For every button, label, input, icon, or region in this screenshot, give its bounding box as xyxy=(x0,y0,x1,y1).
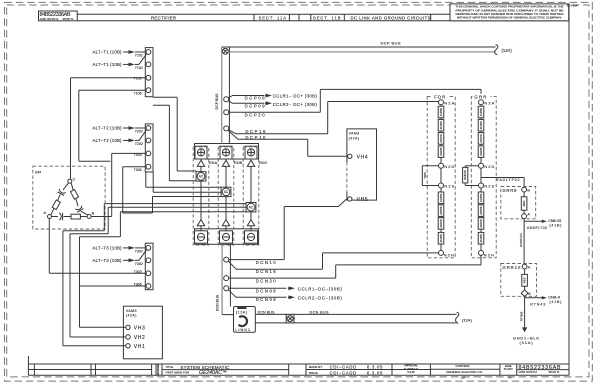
svg-text:21R5K: 21R5K xyxy=(479,134,483,143)
AC terminal RDB xyxy=(221,187,231,196)
svg-text:6.3.05: 6.3.05 xyxy=(367,371,383,376)
resistor FDR R2 xyxy=(438,119,444,131)
svg-text:(41B): (41B) xyxy=(549,299,562,304)
rectifier DC+ bus bar xyxy=(195,144,259,160)
terminal VH5 xyxy=(348,197,352,201)
AC terminal RDC xyxy=(246,203,256,212)
wire T206 to RDB lower xyxy=(123,166,147,168)
resistor GRR R6 xyxy=(478,205,484,217)
svg-text:(12A): (12A) xyxy=(236,311,247,315)
svg-text:REPRODUCED IN ANY MANNER N: REPRODUCED IN ANY MANNER NOR DISCLOSED T… xyxy=(456,12,564,16)
resistor GRR R5 xyxy=(478,192,484,204)
svg-text:21R5K: 21R5K xyxy=(439,219,443,228)
svg-text:73R5: 73R5 xyxy=(423,172,427,179)
svg-text:RES: RES xyxy=(522,200,526,206)
wire DCN16 to FDR N2H xyxy=(228,261,236,269)
proprietary notice box xyxy=(450,4,569,21)
terminal VH1 xyxy=(126,344,130,348)
wire DCN08 xyxy=(229,287,287,289)
relay contact GRR10 dashed box xyxy=(501,264,537,297)
svg-text:21R5K: 21R5K xyxy=(439,193,443,202)
resistor GRR R2 xyxy=(478,119,484,131)
svg-text:DCN08: DCN08 xyxy=(256,288,277,293)
DCN terminal DCN10/16 xyxy=(224,257,229,262)
svg-text:6.3.05: 6.3.05 xyxy=(407,370,415,374)
svg-text:21R5K: 21R5K xyxy=(439,134,443,143)
arrow ALT-T2 no.1 xyxy=(123,127,131,129)
wire GNDFL01 xyxy=(523,221,525,264)
svg-text:(42A): (42A) xyxy=(126,314,136,318)
svg-text:GNDFLT02: GNDFLT02 xyxy=(527,226,547,230)
resistor GRR R3 xyxy=(478,133,484,145)
svg-text:FP: FP xyxy=(35,170,41,175)
svg-text:21R5K: 21R5K xyxy=(439,121,443,130)
svg-text:MADE BY: MADE BY xyxy=(309,365,323,369)
node N2A GRR xyxy=(479,100,484,105)
DCN bus crossing symbol xyxy=(286,314,294,323)
svg-text:N2H: N2H xyxy=(484,252,494,257)
wire DCN10 to VH5 xyxy=(229,259,285,261)
title block xyxy=(152,363,569,365)
resistor GRR R1 xyxy=(478,106,484,118)
svg-text:RTN42: RTN42 xyxy=(520,311,524,321)
svg-text:6.3.05: 6.3.05 xyxy=(367,365,383,370)
svg-text:T201: T201 xyxy=(135,130,143,134)
svg-text:PLANT: PLANT xyxy=(504,367,513,371)
bypass element FAULF02 GRR xyxy=(465,165,478,167)
wire ALT-T2 leads xyxy=(135,127,146,129)
svg-text:VH5: VH5 xyxy=(357,197,368,203)
wire T2 phase lead 2 to RDB AC xyxy=(152,172,154,192)
svg-text:GNDFL01: GNDFL01 xyxy=(519,233,523,247)
rectifier leg RDB dashed box xyxy=(218,147,234,245)
svg-text:PC: PC xyxy=(508,376,512,380)
svg-text:DCN10: DCN10 xyxy=(256,260,277,265)
svg-text:SECT. 11B: SECT. 11B xyxy=(313,15,341,20)
resistor FDR R1 xyxy=(438,106,444,118)
wire DCP10 to VH4 xyxy=(228,131,238,140)
svg-text:DCP10: DCP10 xyxy=(245,135,266,140)
svg-text:T206: T206 xyxy=(134,168,142,172)
DCP terminal DCP16/10 xyxy=(224,126,229,131)
svg-text:DC LINK AND GROUND CIRCUITS: DC LINK AND GROUND CIRCUITS xyxy=(351,15,431,20)
svg-text:CBI: CBI xyxy=(461,376,466,380)
svg-text:DCP16: DCP16 xyxy=(245,129,266,134)
diode lower RDB xyxy=(222,220,229,226)
svg-text:LINK1: LINK1 xyxy=(235,327,250,332)
svg-text:GRR: GRR xyxy=(474,95,486,100)
wire VH2 to RDC AC xyxy=(70,336,126,338)
diode upper RDA xyxy=(197,160,204,166)
winding element bottom side xyxy=(71,214,80,219)
svg-text:21R5K: 21R5K xyxy=(439,147,443,156)
svg-text:N2D: N2D xyxy=(444,164,454,169)
node N2A FDR xyxy=(439,100,444,105)
svg-text:REVISIONS: REVISIONS xyxy=(156,364,160,376)
svg-text:DCP08: DCP08 xyxy=(245,96,266,101)
diode upper RDC xyxy=(247,160,254,166)
ground arrow xyxy=(522,327,527,332)
svg-text:ISSUE: ISSUE xyxy=(309,371,318,375)
svg-text:21R5K: 21R5K xyxy=(479,147,483,156)
voltage module VAM3 right box xyxy=(347,129,377,200)
svg-text:21R5K: 21R5K xyxy=(479,219,483,228)
svg-text:DCN09: DCN09 xyxy=(256,297,277,302)
svg-text:T301: T301 xyxy=(135,250,143,254)
AC terminal RDA xyxy=(196,172,206,181)
svg-text:DCN20: DCN20 xyxy=(256,278,277,283)
svg-text:VAM3: VAM3 xyxy=(126,309,137,313)
svg-text:CONTROL: CONTROL xyxy=(456,364,471,368)
svg-text:FAULF02: FAULF02 xyxy=(464,170,467,180)
svg-text:ALT−T2 (10B): ALT−T2 (10B) xyxy=(93,138,123,143)
svg-text:VH4: VH4 xyxy=(357,154,368,160)
arrow CCLR2-DC-(30B) xyxy=(288,296,291,298)
resistor chain GRR dashed box xyxy=(471,97,496,258)
arrow CCLR1-DC-(30B) xyxy=(288,287,291,289)
DCN terminal DCN08/09 xyxy=(224,286,229,291)
node N2D FDR xyxy=(439,163,444,168)
svg-text:84B522336AB: 84B522336AB xyxy=(519,365,561,371)
svg-text:N2D: N2D xyxy=(484,164,494,169)
relay contact GRR9 dashed box xyxy=(501,187,536,219)
svg-text:VH3: VH3 xyxy=(134,325,145,331)
arrow ALT-T2 no.2 xyxy=(123,139,131,141)
svg-text:THIS DRAWING, WHICH CONTAIN: THIS DRAWING, WHICH CONTAINS PROPRIETARY… xyxy=(456,5,564,9)
svg-text:DCP20: DCP20 xyxy=(245,113,266,118)
svg-text:VH1: VH1 xyxy=(134,344,145,350)
rectifier leg RDA dashed box xyxy=(193,147,209,245)
svg-text:CDI−CADD: CDI−CADD xyxy=(330,365,357,370)
svg-text:RES: RES xyxy=(523,277,527,283)
delta node C xyxy=(68,179,72,183)
arrow ALT-T1 no.1 xyxy=(123,51,131,53)
svg-text:RECTIFIER: RECTIFIER xyxy=(151,15,176,20)
DCN terminal DCN20 xyxy=(224,276,229,281)
svg-text:21R5K: 21R5K xyxy=(479,193,483,202)
delta node B xyxy=(87,215,91,219)
wire DCN20 to GRR N2H xyxy=(229,277,336,279)
wire T103 to delta node C xyxy=(71,77,147,79)
svg-text:RDA: RDA xyxy=(209,160,218,165)
svg-text:RDB: RDB xyxy=(234,160,243,165)
svg-text:AC: AC xyxy=(224,190,229,194)
delta winding side A-B xyxy=(52,216,58,218)
capacitor symbol left side xyxy=(58,189,66,196)
svg-text:PROPERTY OF GENERAL ELECTRI: PROPERTY OF GENERAL ELECTRIC COMPANY. IT… xyxy=(456,8,564,12)
svg-text:N2H: N2H xyxy=(444,252,454,257)
svg-text:GRR10: GRR10 xyxy=(502,265,521,270)
svg-text:CCLR1− DC+ (30B): CCLR1− DC+ (30B) xyxy=(273,94,318,99)
svg-text:ALT−T1 (10B): ALT−T1 (10B) xyxy=(93,62,123,67)
svg-text:CDI−CADD: CDI−CADD xyxy=(330,371,357,376)
node N2E GRR xyxy=(479,183,484,188)
svg-text:T302: T302 xyxy=(135,262,143,266)
svg-text:CONT ON SH 12: CONT ON SH 12 xyxy=(519,371,538,374)
svg-text:21R5K: 21R5K xyxy=(439,206,443,215)
wire T106 xyxy=(79,89,147,91)
svg-text:FAULTF02: FAULTF02 xyxy=(497,178,520,182)
resistor GRR R4 xyxy=(478,146,484,158)
svg-text:(41B): (41B) xyxy=(549,223,562,228)
svg-text:N2A: N2A xyxy=(444,100,454,105)
svg-text:(12A): (12A) xyxy=(502,48,513,53)
svg-text:T101: T101 xyxy=(135,54,143,58)
svg-text:T106: T106 xyxy=(134,91,142,95)
svg-text:TITLE: TITLE xyxy=(165,365,173,369)
svg-text:21R5K: 21R5K xyxy=(439,108,443,117)
arrow ALT-T3 no.1 xyxy=(123,247,131,249)
arrow ALT-T3 no.2 xyxy=(123,259,131,261)
arrow ALT-T1 no.2 xyxy=(123,63,131,65)
resistor GRR10 xyxy=(524,269,526,275)
resistor GRR9 xyxy=(523,192,525,197)
wire T303 to delta node A xyxy=(49,272,146,274)
wire DCP16 to FDR N2A xyxy=(228,130,236,134)
rectifier leg RDC dashed box xyxy=(243,147,259,245)
wire T203 to delta node B xyxy=(112,152,147,154)
terminal VH2 xyxy=(126,335,130,339)
wire ALT-T1 leads xyxy=(135,51,146,53)
node N2D GRR xyxy=(479,163,484,168)
link LINK1 xyxy=(234,307,256,333)
node N2H GRR xyxy=(479,250,484,255)
wire DCN bus into LINK1 xyxy=(222,314,233,316)
svg-text:(42A): (42A) xyxy=(349,136,360,140)
svg-text:(31A): (31A) xyxy=(520,340,534,345)
wire ALT-T3 leads xyxy=(135,247,146,249)
svg-text:E2-7354: E2-7354 xyxy=(567,3,578,7)
svg-text:DCN BUS: DCN BUS xyxy=(215,294,219,311)
rectifier leg RDA wire xyxy=(200,159,202,231)
wire T1 phase lead 2 to RDA xyxy=(153,104,170,106)
svg-text:DCN16: DCN16 xyxy=(256,269,277,274)
wire VH1 to RDC upper xyxy=(63,345,126,347)
capacitor symbol bottom side xyxy=(59,213,63,220)
DCN bus break symbol xyxy=(456,312,459,323)
rectifier leg RDC wire xyxy=(250,159,252,231)
GRR chain wire xyxy=(480,102,482,253)
wire T306 to VH3 xyxy=(80,285,147,287)
resistor GRR R7 xyxy=(478,218,484,230)
winding element left side xyxy=(52,200,60,210)
svg-text:GE240AC™: GE240AC™ xyxy=(199,370,227,376)
svg-text:SYSTEM SCHEMATIC: SYSTEM SCHEMATIC xyxy=(180,365,230,370)
svg-text:GENERAL ELECTRIC CO.: GENERAL ELECTRIC CO. xyxy=(446,370,483,374)
rectifier DC- bus bar xyxy=(195,229,259,245)
DCN bus vertical bars xyxy=(221,244,223,314)
svg-text:WITHOUT WRITTEN PERMISSION: WITHOUT WRITTEN PERMISSION OF GENERAL EL… xyxy=(457,16,562,20)
svg-text:CCLR2−DC−(30B): CCLR2−DC−(30B) xyxy=(298,295,343,300)
terminal VH3 xyxy=(126,325,130,329)
GRR9 terminal A xyxy=(522,214,527,219)
svg-text:21R5K: 21R5K xyxy=(479,206,483,215)
svg-text:SH NO T1: SH NO T1 xyxy=(63,18,75,21)
wire VH3 to RDC lower xyxy=(80,326,126,328)
resistor FDR R7 xyxy=(438,218,444,230)
svg-text:RDC: RDC xyxy=(259,160,268,165)
wire delta A to T303 xyxy=(48,219,50,274)
svg-text:FDR: FDR xyxy=(434,95,445,100)
svg-text:B: B xyxy=(92,211,95,215)
arrow to CN8-9 xyxy=(524,296,526,298)
capacitor symbol right side xyxy=(75,205,83,212)
svg-text:DCP BUS: DCP BUS xyxy=(215,93,219,110)
svg-text:CCLR2− DC+ (30B): CCLR2− DC+ (30B) xyxy=(273,102,318,107)
svg-text:CONT ON SH 12: CONT ON SH 12 xyxy=(40,18,59,21)
sheet right frame line xyxy=(568,4,570,375)
svg-text:AC: AC xyxy=(249,206,254,210)
resistor FDR R5 xyxy=(438,192,444,204)
wire DCP20 to GRR N2A xyxy=(229,111,321,113)
resistor chain FDR dashed box xyxy=(427,97,455,258)
svg-text:ALT−T1 (10B): ALT−T1 (10B) xyxy=(93,50,123,55)
resistor FDR R8 xyxy=(438,232,444,244)
wire T2 phase lead 1 to RDB upper xyxy=(145,172,147,187)
diode upper RDB xyxy=(222,160,229,166)
wire DCP09 xyxy=(228,101,232,104)
svg-text:21R5K: 21R5K xyxy=(479,121,483,130)
svg-text:N2A: N2A xyxy=(484,100,494,105)
wire GRR N2E to GRR9 xyxy=(480,178,482,184)
svg-text:DCN BUS: DCN BUS xyxy=(258,310,276,314)
FDR chain wire xyxy=(440,102,442,253)
header strip xyxy=(77,13,569,15)
wire RTN42 xyxy=(524,298,526,328)
svg-text:SECT. 11A: SECT. 11A xyxy=(259,15,287,20)
winding element right side xyxy=(70,190,78,200)
svg-text:GRR9: GRR9 xyxy=(502,188,517,193)
svg-text:T102: T102 xyxy=(135,66,143,70)
delta node A xyxy=(48,215,52,219)
svg-text:N2E: N2E xyxy=(484,184,494,189)
resistor FDR R3 xyxy=(438,133,444,145)
svg-text:N2E: N2E xyxy=(444,184,454,189)
svg-text:DCP BUS: DCP BUS xyxy=(381,41,401,46)
svg-text:ALT−T3 (10B): ALT−T3 (10B) xyxy=(93,246,123,251)
terminal VH4 xyxy=(348,154,352,158)
svg-text:VH2: VH2 xyxy=(134,335,145,341)
wire DCN09 xyxy=(228,290,236,298)
DCP bus horizontal xyxy=(222,46,496,48)
DCP bus crossing symbol xyxy=(223,48,229,54)
node N2E FDR xyxy=(439,183,444,188)
terminal strip T3 xyxy=(145,243,153,290)
bypass resistor 73R5 FDR xyxy=(422,165,438,167)
drawing number box 84B522336AB xyxy=(39,11,78,21)
terminal strip T1 xyxy=(145,48,153,97)
svg-text:(12A): (12A) xyxy=(462,317,472,322)
DCN bus horizontal xyxy=(255,313,456,315)
svg-text:VAM3: VAM3 xyxy=(349,132,360,136)
wire GRR9 A junction xyxy=(523,219,525,222)
GRR10 terminal B xyxy=(521,290,528,297)
svg-text:CCLR1−DC−(30B): CCLR1−DC−(30B) xyxy=(298,286,343,291)
terminal strip T2 xyxy=(145,124,153,172)
svg-text:RTN43: RTN43 xyxy=(530,302,545,306)
arrow CCLR2- DC+ (30B) xyxy=(265,102,268,104)
wire T1 phase lead 1 to RDA xyxy=(153,96,177,98)
alternator winding box FIP xyxy=(33,166,105,229)
resistor FDR R4 xyxy=(438,146,444,158)
delta winding side C-A xyxy=(63,183,68,190)
resistor FDR R6 xyxy=(438,205,444,217)
svg-text:C: C xyxy=(73,178,76,182)
svg-text:21R5K: 21R5K xyxy=(479,234,483,243)
node N2H FDR xyxy=(439,250,444,255)
svg-text:DCP09: DCP09 xyxy=(245,104,266,109)
svg-text:ALT−T2 (10B): ALT−T2 (10B) xyxy=(93,126,123,131)
DCP bus vertical bars xyxy=(221,47,223,144)
rectifier leg RDB wire xyxy=(225,159,227,231)
svg-text:FIRST MADE FOR: FIRST MADE FOR xyxy=(165,371,189,375)
GRR10 terminal A xyxy=(522,264,527,269)
DCP bus break symbol xyxy=(495,45,498,55)
svg-text:21R5K: 21R5K xyxy=(479,108,483,117)
GRR9 terminal B xyxy=(522,187,527,192)
delta winding side C-B xyxy=(71,183,78,206)
voltage module VAM3 left box xyxy=(123,306,162,359)
DCP terminal DCP20 xyxy=(224,110,229,115)
svg-text:AC: AC xyxy=(199,175,204,179)
svg-text:DCN BUS: DCN BUS xyxy=(310,310,330,314)
arrow CCLR1- DC+ (30B) xyxy=(265,95,268,97)
svg-text:21R5K: 21R5K xyxy=(439,234,443,243)
svg-text:T202: T202 xyxy=(135,142,143,146)
arrow to CN8-23 xyxy=(524,220,542,222)
wire DCP08 xyxy=(228,96,232,98)
svg-text:SH NO T1: SH NO T1 xyxy=(549,371,561,374)
diode lower RDA xyxy=(197,220,204,226)
DCP terminal DCP08/09 xyxy=(224,97,229,102)
svg-text:ALT−T3 (10B): ALT−T3 (10B) xyxy=(93,258,123,263)
diode lower RDC xyxy=(247,220,254,226)
resistor GRR R8 xyxy=(478,232,484,244)
